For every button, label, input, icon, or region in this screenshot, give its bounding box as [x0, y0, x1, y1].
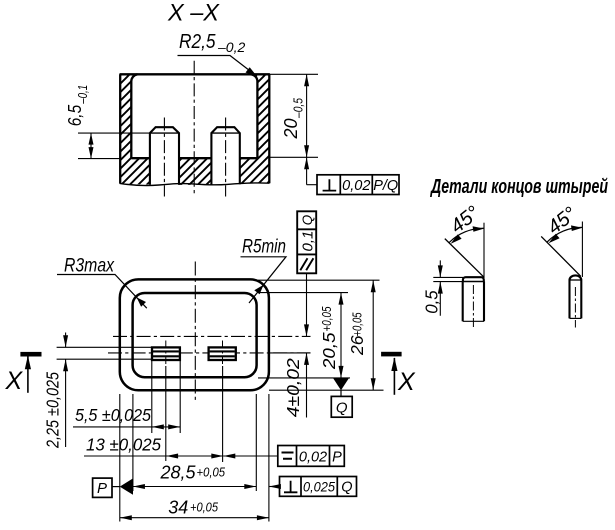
svg-text:X –X: X –X: [167, 0, 221, 27]
centerline of cup: [193, 61, 195, 196]
svg-text:0,5: 0,5: [422, 290, 442, 314]
svg-text:0,02: 0,02: [342, 178, 370, 194]
dimension 34 +0,05: [120, 498, 269, 521]
svg-text:Детали концов штырей: Детали концов штырей: [430, 176, 608, 198]
svg-text:13 ±0,025: 13 ±0,025: [86, 434, 161, 454]
svg-text:Q: Q: [336, 400, 348, 417]
left pin angle arc: [449, 228, 484, 242]
dimension 6,5 -0,1: [64, 85, 150, 159]
plan outer contour: [120, 279, 269, 390]
svg-text:4±0,02: 4±0,02: [283, 358, 303, 417]
feature frame symmetry 0,02 P: [223, 446, 344, 467]
dimension 20,5 +0,05: [319, 293, 344, 378]
section cut mark right: [381, 352, 416, 396]
pin2 section rectangle: [209, 341, 236, 367]
details view title: [430, 176, 608, 198]
svg-text:0,1: 0,1: [299, 231, 316, 252]
svg-text:34: 34: [168, 498, 188, 518]
svg-text:+0,05: +0,05: [190, 500, 219, 515]
datum Q triangle and box: [331, 378, 352, 417]
right pin 45 deg chamfer line: [541, 236, 581, 276]
centerline pin 1: [163, 118, 165, 197]
svg-text:+0,05: +0,05: [351, 312, 365, 336]
vertical centerline of plan: [194, 262, 196, 404]
svg-text:6,5: 6,5: [64, 104, 85, 126]
cup left wall hatch: [120, 74, 150, 184]
feature frame perpendicularity 0,025 Q: [269, 477, 357, 497]
dimension 0,5: [422, 260, 464, 315]
dimension 2,25 +-0,025: [43, 333, 153, 449]
left pin detail body: [463, 277, 484, 321]
svg-text:R3max: R3max: [64, 255, 115, 277]
left pin 45 deg chamfer line: [445, 239, 484, 277]
svg-text:28,5: 28,5: [160, 463, 197, 483]
right side extension lines: [258, 280, 384, 390]
left pin centerline: [472, 285, 474, 328]
left pin vertical extension: [483, 223, 485, 278]
svg-text:R2,5: R2,5: [179, 30, 216, 53]
section title X-X: [167, 0, 221, 27]
right pin detail body: [570, 275, 582, 318]
right pin centerline: [574, 287, 576, 328]
leader from parallelism frame down to 4-dim (upper segment): [306, 273, 308, 336]
right pin vertical extension: [581, 222, 583, 278]
dimension 20 -0,5: [269, 74, 318, 157]
svg-text:Q: Q: [300, 214, 315, 225]
cup floor center hatch: [179, 158, 211, 185]
dimension 28,5 +0,05: [133, 463, 256, 489]
svg-text:0,025: 0,025: [303, 478, 335, 494]
svg-text:20,5: 20,5: [319, 332, 339, 370]
svg-text:–0,1: –0,1: [75, 85, 90, 105]
svg-text:–0,5: –0,5: [291, 97, 306, 118]
dimension 26 +0,05: [347, 280, 376, 390]
right pin angle arc: [547, 227, 582, 242]
feature control frame perpendicularity 0,02 P/Q: [304, 157, 399, 194]
svg-text:+0,05: +0,05: [197, 465, 226, 480]
svg-text:P: P: [332, 449, 342, 465]
svg-text:0,02: 0,02: [299, 449, 327, 465]
rotated feature frame parallelism 0,1 Q: [297, 211, 316, 273]
svg-text:P: P: [97, 480, 107, 497]
radius label R2,5 -0,2: [178, 30, 258, 77]
radius label R5min: [241, 236, 287, 304]
svg-text:5,5 ±0,025: 5,5 ±0,025: [75, 405, 151, 425]
dimension 13 +-0,025: [84, 434, 223, 458]
svg-text:+0,05: +0,05: [320, 306, 334, 331]
cup outline: [120, 74, 270, 183]
cup right wall hatch: [240, 74, 269, 184]
svg-text:26: 26: [347, 335, 367, 356]
svg-text:X: X: [397, 368, 416, 396]
svg-text:20: 20: [281, 118, 301, 139]
break line at bottom of section: [120, 183, 270, 186]
bottom extension lines: [120, 394, 269, 522]
svg-text:P/Q: P/Q: [373, 178, 398, 194]
dimension 4 +-0,02 lower segment: [283, 353, 309, 418]
section cut mark left: [5, 352, 42, 395]
pin1 section rectangle: [152, 341, 180, 367]
pin row centerline: [108, 352, 311, 354]
section pin 1: [150, 127, 179, 185]
svg-text:2,25 ±0,025: 2,25 ±0,025: [43, 372, 63, 449]
radius label R3max: [57, 255, 147, 309]
svg-text:Q: Q: [341, 479, 352, 495]
svg-text:–0,2: –0,2: [217, 39, 245, 55]
centerline pin 2: [225, 118, 227, 197]
svg-text:X: X: [5, 367, 24, 395]
svg-text:R5min: R5min: [242, 236, 286, 258]
horizontal centerline of plan: [113, 335, 311, 337]
datum P box and triangle: [93, 478, 133, 497]
dimension 5,5 +-0,025: [73, 405, 180, 430]
section pin 2: [211, 127, 239, 185]
plan inner contour: [133, 293, 257, 377]
